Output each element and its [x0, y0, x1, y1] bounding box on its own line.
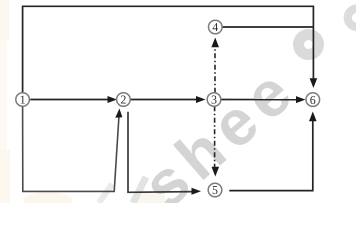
edge 2-3 wire [131, 99, 197, 101]
node 4 [209, 20, 223, 34]
svg-text:2: 2 [120, 93, 126, 107]
edge 4-6 wire [222, 26, 314, 28]
watermark beige bottom blob [24, 192, 72, 208]
svg-text:4: 4 [212, 20, 218, 34]
edge 3-6 wire [221, 99, 297, 101]
arrowhead into node 6 from left [296, 96, 306, 103]
node 3 [207, 93, 221, 107]
arrowhead into node 2 from left [108, 96, 118, 103]
edge 5-6 wire [229, 120, 312, 191]
node 2 [117, 93, 131, 107]
edge 1-2 wire [30, 99, 108, 101]
arrowhead into node 6 from top [310, 78, 318, 88]
watermark stroke fragment left [133, 177, 146, 203]
arrowhead into node 2 from below diagonal [115, 109, 122, 118]
svg-text:6: 6 [310, 93, 316, 107]
watermark donut ring 2 [348, 9, 356, 27]
arrowhead into node 5 from above [212, 167, 220, 177]
edge 3-4 dummy dash-dot wire [214, 45, 216, 93]
node 6 [306, 93, 320, 107]
edge 1-6 top loop wire [23, 6, 314, 93]
watermark left cream strip [0, 0, 7, 203]
watermark stroke fragment bottom [99, 184, 112, 203]
arrowhead into node 3 from left [196, 96, 206, 103]
svg-text:1: 1 [20, 93, 26, 107]
arrowhead into node 5 from left [192, 188, 202, 195]
edge 2-5 bottom wire [128, 112, 193, 193]
node 1 [16, 93, 30, 107]
node 5 [208, 183, 222, 197]
edge 3-5 dummy dash-dot wire [214, 106, 216, 169]
watermark donut ring 1 [299, 35, 319, 55]
arrowhead into node 6 from below [309, 112, 317, 122]
svg-text:5: 5 [212, 183, 218, 197]
arrowhead into node 4 from below [211, 38, 219, 48]
svg-text:3: 3 [211, 93, 217, 107]
edge 1-2 bottom loop wire [23, 106, 119, 192]
